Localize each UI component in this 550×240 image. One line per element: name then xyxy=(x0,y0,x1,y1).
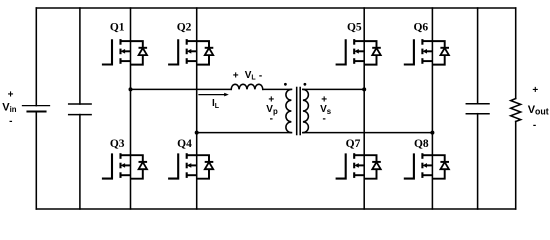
svg-text:Q7: Q7 xyxy=(346,138,361,150)
svg-text:-: - xyxy=(9,116,12,127)
svg-text:Q8: Q8 xyxy=(414,138,429,150)
svg-text:+: + xyxy=(532,85,538,96)
svg-text:Q5: Q5 xyxy=(347,22,362,34)
svg-text:Vout: Vout xyxy=(528,104,549,117)
svg-text:Q3: Q3 xyxy=(110,138,125,150)
svg-text:Q6: Q6 xyxy=(413,22,428,34)
svg-text:IL: IL xyxy=(212,98,220,110)
svg-text:Q1: Q1 xyxy=(110,22,125,34)
svg-text:Q2: Q2 xyxy=(177,22,192,34)
svg-text:-: - xyxy=(259,71,262,82)
svg-text:Vin: Vin xyxy=(2,102,17,115)
svg-text:+: + xyxy=(233,70,239,81)
svg-text:Q4: Q4 xyxy=(177,138,192,150)
svg-text:-: - xyxy=(323,114,326,125)
svg-text:-: - xyxy=(533,120,536,131)
svg-text:-: - xyxy=(270,114,273,125)
svg-text:+: + xyxy=(8,90,14,101)
svg-text:VL: VL xyxy=(245,70,257,82)
